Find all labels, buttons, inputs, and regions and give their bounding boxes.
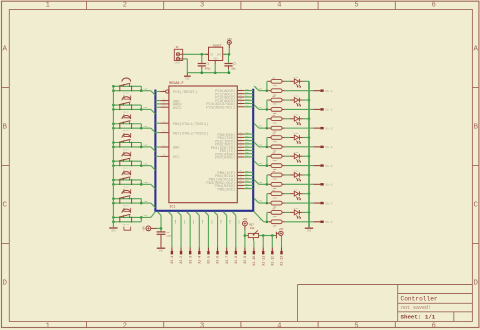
svg-text:MEGA8-P: MEGA8-P	[169, 82, 183, 86]
svg-text:X2-4: X2-4	[197, 256, 201, 264]
svg-text:GND: GND	[214, 58, 219, 61]
svg-text:SW2: SW2	[144, 125, 149, 128]
svg-text:X2-2: X2-2	[179, 256, 183, 264]
svg-text:10-XX: 10-XX	[123, 167, 130, 170]
svg-text:SW7: SW7	[144, 214, 149, 217]
svg-text:OUT: OUT	[217, 53, 222, 56]
svg-text:6: 6	[432, 322, 436, 330]
svg-text:20: 20	[240, 105, 242, 107]
svg-text:X2-10: X2-10	[252, 256, 256, 266]
svg-text:10-XX: 10-XX	[123, 148, 130, 151]
svg-text:5: 5	[354, 2, 358, 10]
svg-text:10u: 10u	[231, 67, 236, 70]
svg-text:GND: GND	[185, 78, 190, 81]
svg-text:+5V: +5V	[279, 228, 284, 231]
svg-text:PB5(SCK): PB5(SCK)	[217, 187, 235, 192]
svg-text:LED4: LED4	[293, 132, 299, 135]
svg-text:LED3: LED3	[293, 113, 299, 116]
svg-text:4: 4	[277, 2, 281, 10]
svg-text:6: 6	[432, 2, 436, 10]
svg-text:56: 56	[240, 183, 242, 185]
svg-text:1: 1	[46, 2, 50, 10]
svg-text:X2-13: X2-13	[280, 256, 284, 266]
svg-text:4: 4	[277, 322, 281, 330]
svg-text:10-XX: 10-XX	[123, 185, 130, 188]
svg-text:2: 2	[123, 322, 127, 330]
svg-text:D: D	[473, 279, 478, 287]
svg-text:GND: GND	[307, 230, 312, 233]
svg-text:36: 36	[240, 177, 242, 179]
svg-text:32: 32	[163, 130, 165, 132]
svg-text:10-XX: 10-XX	[123, 223, 130, 226]
svg-text:LED2: LED2	[293, 95, 299, 98]
svg-text:31: 31	[240, 142, 242, 144]
svg-text:C: C	[473, 201, 478, 209]
svg-text:+5V: +5V	[227, 38, 232, 41]
svg-text:not saved!: not saved!	[401, 305, 431, 311]
svg-text:X2-9: X2-9	[243, 256, 247, 264]
svg-text:LED5: LED5	[293, 151, 299, 154]
svg-text:470u: 470u	[205, 67, 211, 70]
svg-text:PB6(XTAL1/TOSC1): PB6(XTAL1/TOSC1)	[173, 122, 208, 127]
svg-text:LED6: LED6	[293, 170, 299, 173]
svg-text:PC5(ADC5/SCL): PC5(ADC5/SCL)	[206, 106, 235, 111]
svg-text:23: 23	[163, 121, 165, 123]
svg-text:X1-6: X1-6	[325, 184, 332, 187]
svg-text:10-XX: 10-XX	[123, 204, 130, 207]
svg-text:PC6(/RESET): PC6(/RESET)	[173, 90, 197, 95]
svg-text:SW0: SW0	[144, 87, 149, 90]
svg-text:3: 3	[200, 322, 204, 330]
svg-text:GND: GND	[159, 250, 164, 253]
svg-text:PB7(XTAL2/TOSC2): PB7(XTAL2/TOSC2)	[173, 131, 208, 136]
svg-text:2: 2	[123, 2, 127, 10]
svg-text:02: 02	[240, 132, 242, 134]
svg-text:X1-4: X1-4	[325, 146, 332, 149]
svg-text:X1-2: X1-2	[325, 109, 332, 112]
svg-text:LED1: LED1	[293, 76, 299, 79]
svg-text:IC1: IC1	[169, 206, 175, 210]
svg-text:+5V: +5V	[243, 218, 248, 221]
svg-text:7805T: 7805T	[213, 45, 222, 48]
svg-text:00: 00	[163, 98, 165, 100]
svg-text:LED8: LED8	[293, 207, 299, 210]
svg-text:PD7(AIN1): PD7(AIN1)	[215, 156, 235, 161]
svg-text:X2-8: X2-8	[234, 256, 238, 264]
svg-text:5: 5	[354, 322, 358, 330]
svg-text:56: 56	[163, 154, 165, 156]
svg-text:VCC: VCC	[173, 156, 180, 160]
svg-text:51: 51	[240, 148, 242, 150]
svg-text:26: 26	[240, 173, 242, 175]
svg-text:A: A	[473, 45, 478, 53]
svg-text:X2-3: X2-3	[188, 256, 192, 264]
svg-text:SW1: SW1	[144, 106, 149, 109]
svg-text:X2-12: X2-12	[270, 256, 274, 266]
svg-text:71: 71	[240, 155, 242, 157]
svg-text:21: 21	[240, 138, 242, 140]
svg-text:X1-5: X1-5	[325, 165, 332, 168]
svg-text:10-XX: 10-XX	[123, 110, 130, 113]
svg-text:B: B	[2, 123, 7, 131]
svg-text:46: 46	[240, 180, 242, 182]
svg-text:A: A	[2, 45, 7, 53]
svg-text:10-XX: 10-XX	[123, 92, 130, 95]
svg-text:10k: 10k	[250, 226, 255, 230]
svg-text:GND: GND	[173, 147, 180, 151]
svg-text:03: 03	[163, 102, 165, 104]
svg-text:Controller: Controller	[401, 295, 438, 302]
svg-text:16: 16	[240, 170, 242, 172]
svg-text:GND: GND	[111, 230, 116, 233]
svg-text:JACK: JACK	[174, 61, 180, 64]
svg-text:91: 91	[240, 95, 242, 97]
svg-text:X2-1: X2-1	[170, 256, 174, 264]
svg-text:Sheet: 1/1: Sheet: 1/1	[401, 313, 436, 320]
svg-text:B: B	[473, 123, 478, 131]
svg-text:3: 3	[200, 2, 204, 10]
svg-text:07: 07	[163, 105, 165, 107]
svg-text:41: 41	[240, 145, 242, 147]
svg-text:X1-7: X1-7	[325, 202, 332, 205]
svg-text:X2-5: X2-5	[207, 256, 211, 264]
svg-text:C: C	[2, 201, 7, 209]
svg-text:SW4: SW4	[144, 162, 149, 165]
svg-text:PD7: PD7	[245, 155, 248, 158]
svg-text:J1: J1	[176, 46, 180, 49]
svg-text:X2-11: X2-11	[261, 256, 265, 266]
svg-text:61: 61	[240, 152, 242, 154]
svg-text:SW5: SW5	[144, 181, 149, 184]
svg-text:X2-6: X2-6	[216, 256, 220, 264]
svg-text:10: 10	[240, 101, 242, 103]
svg-text:100n: 100n	[166, 235, 172, 238]
svg-text:12: 12	[240, 135, 242, 137]
svg-text:X1-1: X1-1	[325, 90, 332, 93]
svg-text:71: 71	[240, 88, 242, 90]
svg-text:10-XX: 10-XX	[123, 129, 130, 132]
svg-text:D: D	[2, 279, 7, 287]
svg-text:81: 81	[240, 92, 242, 94]
svg-text:X2-7: X2-7	[225, 256, 229, 264]
svg-text:65: 65	[240, 186, 242, 188]
svg-text:X1-8: X1-8	[325, 221, 332, 224]
svg-text:1: 1	[46, 322, 50, 330]
svg-text:AVCC: AVCC	[173, 107, 183, 111]
svg-text:47: 47	[163, 145, 165, 147]
svg-text:SW6: SW6	[144, 200, 149, 203]
svg-text:X1-3: X1-3	[325, 127, 332, 130]
svg-text:+5V: +5V	[142, 226, 145, 231]
svg-text:00: 00	[240, 98, 242, 100]
svg-text:91: 91	[163, 89, 165, 91]
svg-text:SW3: SW3	[144, 144, 149, 147]
svg-text:LED7: LED7	[293, 188, 299, 191]
